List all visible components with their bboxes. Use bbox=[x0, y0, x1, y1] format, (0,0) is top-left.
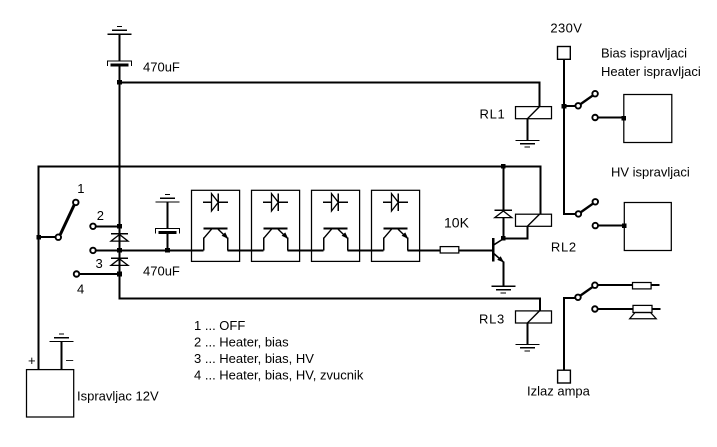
optocoupler U4 phototransistor emitter with arrow (right leg) bbox=[398, 229, 408, 250]
wire zener tap from top rail bbox=[502, 166, 504, 210]
wire RL3 coil to ground bbox=[526, 323, 528, 345]
wire after speaker bbox=[652, 308, 661, 310]
ground G4 (RL1 coil) bbox=[515, 140, 539, 147]
svg-text:HV ispravljaci: HV ispravljaci bbox=[611, 165, 690, 180]
optocoupler U2 phototransistor emitter with arrow (right leg) bbox=[278, 229, 288, 250]
wire RL3 lower throw to speaker bbox=[598, 308, 633, 310]
node: junction at Bias box input bbox=[622, 116, 627, 121]
svg-text:470uF: 470uF bbox=[143, 60, 180, 75]
wire after R2 bbox=[651, 284, 659, 286]
optocoupler U3 LED (triangle + cathode bar) bbox=[332, 194, 339, 211]
speaker LS1 (box + cone) bbox=[630, 305, 657, 318]
common contact circle of RL2 bbox=[576, 211, 582, 217]
wire base rail: U4 emitter to R1 bbox=[408, 249, 441, 251]
diode D3 (across RL2 coil) (cathode up) bbox=[495, 210, 512, 217]
svg-text:RL3: RL3 bbox=[479, 312, 505, 327]
svg-text:1 ... OFF: 1 ... OFF bbox=[194, 318, 245, 333]
wire position 3 to diode chain bbox=[96, 249, 120, 251]
svg-text:–: – bbox=[66, 352, 74, 367]
node A junction (12V rail to relays) bbox=[117, 80, 122, 85]
relay coil RL3 bbox=[516, 311, 552, 323]
rotary switch S1 position 4 contact bbox=[74, 271, 80, 277]
diode D2 (cathode up) bbox=[111, 258, 128, 265]
diode D1 (cathode up) bbox=[111, 234, 128, 241]
wire RL2 lower throw to HV box bbox=[598, 225, 625, 227]
ground G5 (Q1 emitter) bbox=[491, 286, 515, 293]
optocoupler U3 LED cathode lead bbox=[338, 201, 347, 203]
optocoupler U4 phototransistor collector (left leg) bbox=[384, 229, 392, 250]
transistor Q1 collector stroke bbox=[494, 239, 504, 245]
ground G3 (chassis, pointing up) bbox=[50, 334, 74, 342]
upper throw contact circle of RL2 bbox=[593, 199, 599, 205]
optocoupler U2 package box bbox=[252, 190, 300, 261]
contact lever (armature) of RL3 bbox=[581, 287, 593, 295]
lower throw contact circle of RL2 bbox=[593, 223, 599, 229]
wire base rail: node C to U1 collector bbox=[120, 249, 204, 251]
rotary switch S1 position 3 contact bbox=[90, 248, 96, 254]
node D junction (position 4) bbox=[117, 272, 122, 277]
optocoupler U1 LED (triangle + cathode bar) bbox=[212, 194, 219, 211]
optocoupler U2 phototransistor collector (left leg) bbox=[264, 229, 272, 250]
node C junction (position 3 / base rail) bbox=[117, 248, 122, 253]
wire R1 to Q1 base bbox=[459, 249, 494, 251]
optocoupler U4 LED cathode lead bbox=[398, 201, 407, 203]
optocoupler U1 phototransistor base bar bbox=[204, 228, 228, 230]
node: junction of pole stub on left rail bbox=[36, 235, 41, 240]
optocoupler U1 LED cathode lead bbox=[218, 201, 227, 203]
ground G2 (C2 top) (chassis, pointing up) bbox=[156, 194, 180, 202]
wire stub 230V to RL1 common bbox=[564, 105, 575, 107]
wire RL3 upper throw to dummy-load resistor R2 bbox=[598, 284, 633, 286]
rotary switch S1 position 1 contact bbox=[73, 200, 79, 206]
optocoupler U1 phototransistor collector (left leg) bbox=[204, 229, 212, 250]
contact lever (armature) of RL2 bbox=[581, 204, 593, 212]
rotary switch S1 position 2 contact bbox=[90, 224, 96, 230]
relay coil RL1 bbox=[516, 107, 552, 119]
optocoupler U4 LED anode lead bbox=[383, 201, 392, 203]
wire C1 to node A bbox=[119, 67, 121, 84]
svg-text:1: 1 bbox=[77, 181, 84, 196]
wire base rail: U3 emitter to U4 collector bbox=[348, 249, 384, 251]
rotary switch S1 lever (position 1 engaged) bbox=[60, 205, 74, 235]
optocoupler U2 LED (triangle + cathode bar) bbox=[272, 194, 279, 211]
wire stub RL3 common to output line bbox=[563, 297, 575, 299]
capacitor C1 470uF (electrolytic) bbox=[108, 61, 132, 66]
wire ground G1 to C1 bbox=[119, 34, 121, 61]
terminal square 230V input bbox=[558, 47, 571, 60]
transistor Q1 emitter stroke with arrow bbox=[494, 254, 503, 262]
wire RL1 coil to ground bbox=[526, 118, 528, 140]
resistor R2 (dummy load) (box body) bbox=[633, 283, 652, 289]
wire base rail: U2 emitter to U3 collector bbox=[288, 249, 324, 251]
wire top rail (switched 12V to RL2) bbox=[38, 165, 540, 167]
optocoupler U4 phototransistor base bar bbox=[384, 228, 408, 230]
optocoupler U1 package box bbox=[192, 190, 240, 261]
upper throw contact circle of RL3 bbox=[592, 282, 598, 288]
wire stub 230V to RL2 common bbox=[563, 213, 575, 215]
optocoupler U3 package box bbox=[312, 190, 360, 261]
wire drop into RL3 coil bbox=[539, 297, 541, 311]
upper throw contact circle of RL1 bbox=[592, 91, 598, 97]
optocoupler U2 phototransistor base bar bbox=[264, 228, 288, 230]
terminal square Izlaz ampa bbox=[558, 370, 571, 383]
svg-text:RL2: RL2 bbox=[551, 240, 577, 255]
wire C2 to base rail bbox=[167, 234, 169, 251]
wire Q1 emitter to ground bbox=[502, 261, 504, 286]
optocoupler U3 phototransistor base bar bbox=[324, 228, 348, 230]
optocoupler U2 LED anode lead bbox=[263, 201, 272, 203]
svg-text:Ispravljac 12V: Ispravljac 12V bbox=[77, 388, 159, 403]
svg-text:+: + bbox=[28, 353, 36, 368]
optocoupler U2 LED cathode lead bbox=[278, 201, 287, 203]
optocoupler U3 phototransistor collector (left leg) bbox=[324, 229, 332, 250]
node: junction C2 on base rail bbox=[165, 248, 170, 253]
resistor R1 10K (box body) bbox=[440, 247, 459, 253]
capacitor C2 470uF (electrolytic) bbox=[156, 228, 180, 233]
svg-text:2 ... Heater, bias: 2 ... Heater, bias bbox=[194, 335, 289, 350]
node E: Q1 collector junction bbox=[501, 236, 506, 241]
transistor Q1 base bar bbox=[492, 238, 494, 261]
wire drop into RL2 coil bbox=[539, 165, 541, 214]
contact lever (armature) of RL1 bbox=[581, 96, 593, 104]
svg-text:470uF: 470uF bbox=[143, 264, 180, 279]
svg-text:4 ... Heater, bias, HV, zvucni: 4 ... Heater, bias, HV, zvucnik bbox=[194, 368, 364, 383]
wire RL2 coil return drop bbox=[526, 226, 528, 239]
ground G6 (RL3 coil) bbox=[515, 344, 539, 351]
node B junction (position 2) bbox=[117, 224, 122, 229]
node: junction 230V at RL1 contact bbox=[562, 104, 567, 109]
box HV ispravljaci (rectifier unit) bbox=[624, 203, 671, 251]
wire ground G3 into supply box bbox=[61, 342, 63, 370]
node: junction on top rail bbox=[501, 164, 506, 169]
optocoupler U3 LED anode lead bbox=[323, 201, 332, 203]
wire bottom rail (to RL3 coil) bbox=[119, 297, 541, 299]
relay coil RL2 bbox=[516, 214, 552, 226]
wire drop into RL1 coil bbox=[539, 81, 541, 107]
optocoupler U1 phototransistor emitter with arrow (right leg) bbox=[218, 229, 228, 250]
node: junction at HV box input bbox=[622, 224, 627, 229]
svg-text:4: 4 bbox=[77, 282, 84, 297]
wire diode chain vertical (node A down to bottom rail) bbox=[119, 82, 121, 299]
wire D3 to collector node bbox=[502, 217, 504, 238]
common contact circle of RL1 bbox=[575, 103, 581, 109]
wire position 2 to diode chain bbox=[96, 225, 120, 227]
lower throw contact circle of RL3 bbox=[592, 306, 598, 312]
optocoupler U3 phototransistor emitter with arrow (right leg) bbox=[338, 229, 348, 250]
wire 230V line down to RL2 contact bbox=[563, 59, 565, 214]
svg-text:2: 2 bbox=[97, 208, 104, 223]
svg-text:3 ... Heater, bias, HV: 3 ... Heater, bias, HV bbox=[194, 351, 314, 366]
lower throw contact circle of RL1 bbox=[592, 115, 598, 121]
svg-text:Heater ispravljaci: Heater ispravljaci bbox=[601, 64, 701, 79]
wire ground G2 to C2 bbox=[167, 202, 169, 229]
ground G1 (C1 top) (chassis, pointing up) bbox=[108, 27, 132, 35]
svg-text:RL1: RL1 bbox=[480, 107, 506, 122]
optocoupler U4 LED (triangle + cathode bar) bbox=[392, 194, 399, 211]
svg-text:230V: 230V bbox=[550, 21, 582, 36]
optocoupler U1 LED anode lead bbox=[203, 201, 212, 203]
wire collector node to RL2 coil return bbox=[503, 237, 527, 239]
box Bias/Heater ispravljaci (rectifier unit) bbox=[624, 95, 672, 143]
optocoupler U4 package box bbox=[372, 190, 420, 261]
wire stub to rotary switch pole bbox=[38, 236, 56, 238]
wire RL1 lower throw to bias box bbox=[598, 117, 624, 119]
wire position 4 to diode chain bbox=[80, 273, 121, 275]
svg-text:10K: 10K bbox=[444, 214, 470, 230]
wire base rail: U1 emitter to U2 collector bbox=[228, 249, 264, 251]
wire 12V rail from node A to RL1 bbox=[119, 81, 540, 83]
rotary switch S1 pole circle bbox=[56, 234, 62, 240]
svg-text:Izlaz ampa: Izlaz ampa bbox=[527, 383, 591, 398]
wire output line down to Izlaz ampa terminal bbox=[563, 297, 565, 370]
svg-text:Bias ispravljaci: Bias ispravljaci bbox=[601, 45, 687, 60]
wire switch common vertical (left rail) bbox=[38, 166, 40, 370]
box Ispravljac 12V (12V supply) bbox=[27, 370, 74, 417]
common contact circle of RL3 bbox=[575, 295, 581, 301]
svg-text:3: 3 bbox=[96, 256, 103, 271]
